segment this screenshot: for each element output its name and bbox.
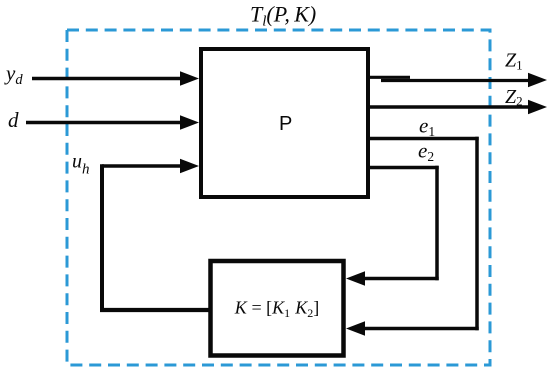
svg-text:P: P [279, 113, 292, 135]
wire e1 into K [362, 327, 479, 331]
svg-text:d: d [8, 108, 19, 132]
arrowhead Z2 [528, 100, 547, 115]
wire Z2 [368, 105, 531, 109]
wire e2 vertical [435, 166, 439, 280]
block K [211, 261, 344, 356]
wire e2 into K [362, 277, 439, 281]
arrowhead e1 into K [346, 321, 365, 336]
wire feedback bottom horizontal [100, 308, 211, 312]
wire uh vertical feedback [100, 164, 104, 311]
arrowhead uh [180, 159, 199, 174]
wire yd [32, 77, 183, 81]
arrowhead e2 into K [346, 271, 365, 286]
wire e1 vertical [475, 137, 479, 330]
wire d [26, 121, 183, 125]
arrowhead Z1 [528, 73, 547, 88]
wire uh horizontal [102, 164, 183, 168]
arrowhead yd [180, 71, 199, 86]
svg-text:Tl(P, K): Tl(P, K) [250, 2, 316, 30]
arrowhead d [180, 115, 199, 130]
wire Z1 stub [368, 76, 410, 79]
wire e2 horizontal [368, 166, 439, 170]
block P [201, 49, 368, 197]
svg-text:K = [K1 K2]: K = [K1 K2] [234, 298, 320, 321]
wire e1 horizontal [368, 137, 479, 141]
dashed boundary box T_l [67, 30, 490, 365]
wire Z1 [381, 79, 531, 82]
